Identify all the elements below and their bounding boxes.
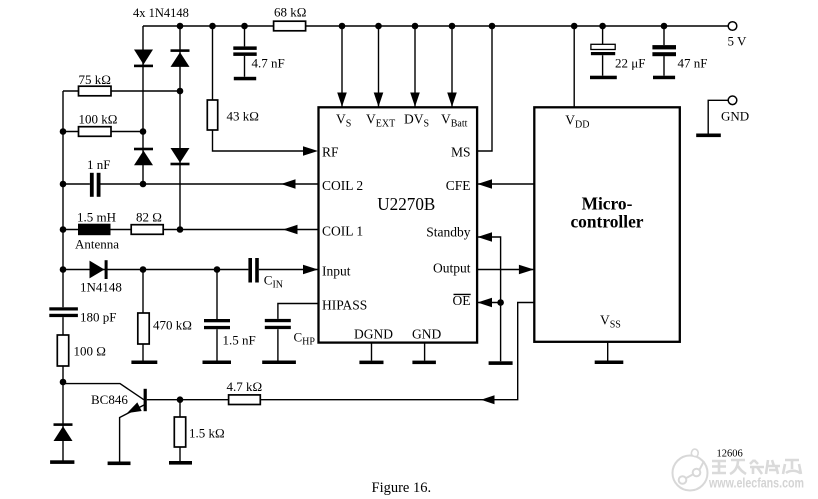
svg-text:1.5 nF: 1.5 nF — [223, 333, 256, 348]
svg-text:Output: Output — [433, 261, 471, 276]
svg-text:75 kΩ: 75 kΩ — [79, 72, 111, 87]
svg-text:5 V: 5 V — [728, 34, 748, 49]
svg-text:68 kΩ: 68 kΩ — [274, 5, 306, 20]
svg-text:1.5 kΩ: 1.5 kΩ — [189, 426, 225, 441]
svg-text:Micro-: Micro- — [582, 194, 633, 214]
svg-text:Input: Input — [322, 264, 351, 279]
svg-text:controller: controller — [570, 212, 643, 232]
svg-text:43 kΩ: 43 kΩ — [227, 109, 259, 124]
svg-text:CHP: CHP — [294, 330, 316, 348]
svg-text:COIL 2: COIL 2 — [322, 178, 363, 193]
svg-text:100 Ω: 100 Ω — [74, 344, 106, 359]
svg-text:HIPASS: HIPASS — [322, 298, 367, 313]
svg-text:GND: GND — [412, 327, 441, 342]
svg-text:Standby: Standby — [426, 225, 471, 240]
svg-text:GND: GND — [721, 109, 749, 124]
svg-text:100 kΩ: 100 kΩ — [79, 112, 118, 127]
svg-text:COIL 1: COIL 1 — [322, 224, 363, 239]
svg-text:4x 1N4148: 4x 1N4148 — [133, 6, 189, 20]
svg-text:CFE: CFE — [446, 178, 471, 193]
svg-text:RF: RF — [322, 145, 339, 160]
svg-text:470 kΩ: 470 kΩ — [153, 318, 192, 333]
svg-text:DGND: DGND — [354, 327, 393, 342]
svg-text:www.elecfans.com: www.elecfans.com — [708, 476, 804, 491]
svg-text:1 nF: 1 nF — [87, 157, 110, 172]
svg-text:12606: 12606 — [717, 449, 743, 460]
svg-text:BC846: BC846 — [91, 392, 128, 407]
svg-text:MS: MS — [451, 145, 471, 160]
svg-text:Antenna: Antenna — [75, 237, 119, 252]
svg-text:1N4148: 1N4148 — [80, 280, 122, 295]
svg-text:180 pF: 180 pF — [80, 310, 116, 325]
svg-text:22 μF: 22 μF — [615, 56, 645, 71]
svg-text:U2270B: U2270B — [377, 194, 435, 214]
svg-text:47 nF: 47 nF — [678, 56, 708, 71]
svg-text:4.7 nF: 4.7 nF — [252, 56, 285, 71]
svg-text:CIN: CIN — [264, 273, 283, 291]
svg-text:4.7 kΩ: 4.7 kΩ — [227, 379, 263, 394]
svg-text:82 Ω: 82 Ω — [136, 210, 162, 225]
svg-text:Figure 16.: Figure 16. — [372, 480, 432, 496]
svg-text:1.5 mH: 1.5 mH — [77, 210, 116, 225]
